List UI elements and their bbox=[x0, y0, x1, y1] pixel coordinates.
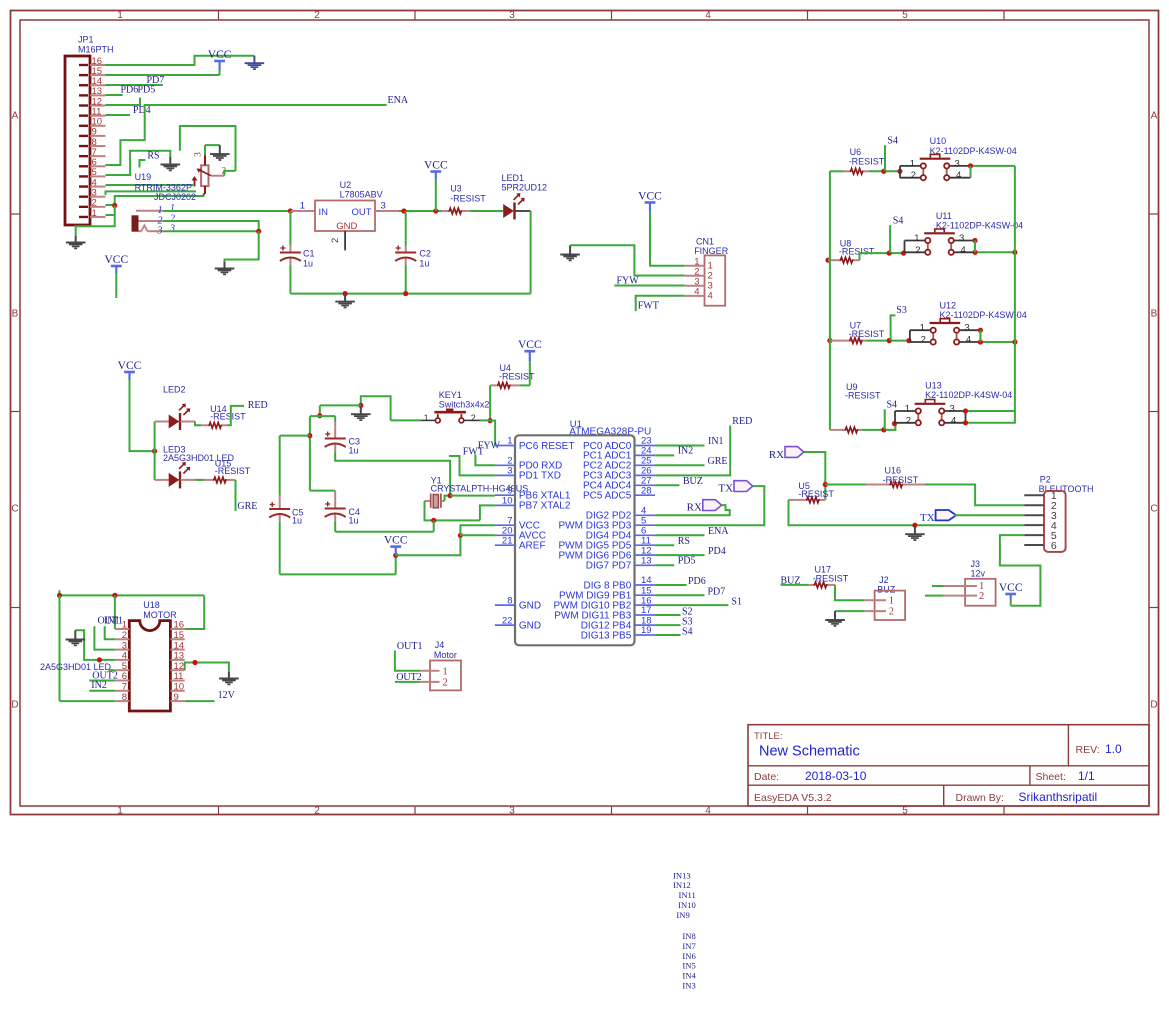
svg-text:12V: 12V bbox=[218, 690, 236, 701]
svg-text:PD5: PD5 bbox=[678, 556, 696, 567]
svg-text:1.0: 1.0 bbox=[1105, 742, 1122, 756]
svg-text:5: 5 bbox=[902, 806, 908, 817]
svg-text:IN9: IN9 bbox=[676, 910, 689, 920]
svg-text:2: 2 bbox=[889, 607, 894, 618]
svg-text:PD6: PD6 bbox=[121, 84, 139, 95]
svg-text:4: 4 bbox=[951, 415, 956, 426]
svg-text:S1: S1 bbox=[731, 597, 742, 608]
svg-text:3: 3 bbox=[509, 806, 515, 817]
svg-text:ENA: ENA bbox=[388, 95, 409, 106]
svg-text:PD7: PD7 bbox=[708, 587, 726, 598]
svg-text:PC5 ADC5: PC5 ADC5 bbox=[583, 491, 632, 502]
svg-text:Switch3x4x2: Switch3x4x2 bbox=[439, 400, 490, 410]
svg-text:4: 4 bbox=[705, 806, 711, 817]
svg-text:3: 3 bbox=[955, 158, 960, 169]
svg-text:3: 3 bbox=[157, 226, 163, 237]
svg-text:Sheet:: Sheet: bbox=[1036, 771, 1066, 783]
svg-text:IN1: IN1 bbox=[104, 616, 120, 627]
svg-text:S4: S4 bbox=[887, 399, 898, 410]
svg-text:J4: J4 bbox=[435, 640, 445, 650]
svg-text:RED: RED bbox=[732, 416, 752, 427]
svg-text:-RESIST: -RESIST bbox=[845, 390, 881, 400]
svg-text:RX: RX bbox=[687, 502, 702, 514]
svg-text:S3: S3 bbox=[896, 305, 907, 316]
svg-text:-RESIST: -RESIST bbox=[813, 574, 849, 584]
svg-text:M16PTH: M16PTH bbox=[78, 45, 114, 55]
svg-text:IN2: IN2 bbox=[678, 446, 694, 457]
svg-text:28: 28 bbox=[641, 485, 652, 496]
svg-text:RX: RX bbox=[769, 449, 784, 461]
svg-text:1: 1 bbox=[117, 806, 123, 817]
svg-text:-RESIST: -RESIST bbox=[210, 412, 246, 422]
svg-text:A: A bbox=[1151, 111, 1158, 122]
svg-text:DIG7 PD7: DIG7 PD7 bbox=[586, 561, 632, 572]
svg-text:VCC: VCC bbox=[384, 534, 408, 546]
svg-text:1u: 1u bbox=[349, 515, 359, 525]
svg-text:4: 4 bbox=[708, 290, 713, 301]
svg-text:JP1: JP1 bbox=[78, 35, 94, 45]
svg-text:GRE: GRE bbox=[237, 501, 257, 512]
svg-text:K2-1102DP-K4SW-04: K2-1102DP-K4SW-04 bbox=[936, 221, 1023, 231]
svg-text:-RESIST: -RESIST bbox=[849, 157, 885, 167]
svg-text:5: 5 bbox=[902, 10, 908, 21]
svg-text:J3: J3 bbox=[971, 559, 981, 569]
svg-text:RS: RS bbox=[147, 150, 159, 161]
svg-text:U19: U19 bbox=[135, 172, 152, 182]
svg-text:2: 2 bbox=[471, 413, 476, 423]
svg-text:1: 1 bbox=[424, 413, 429, 423]
svg-text:Drawn By:: Drawn By: bbox=[956, 792, 1004, 804]
svg-text:IN8: IN8 bbox=[682, 931, 695, 941]
svg-text:RED: RED bbox=[248, 400, 268, 411]
svg-text:4: 4 bbox=[956, 170, 961, 181]
svg-text:IN1: IN1 bbox=[708, 436, 724, 447]
svg-text:D: D bbox=[11, 700, 18, 711]
svg-text:S4: S4 bbox=[682, 627, 693, 638]
svg-text:IN2: IN2 bbox=[91, 680, 107, 691]
svg-text:8: 8 bbox=[122, 692, 127, 703]
svg-text:PD4: PD4 bbox=[708, 546, 726, 557]
svg-text:PD4: PD4 bbox=[133, 105, 151, 116]
svg-text:4: 4 bbox=[705, 10, 711, 21]
svg-text:2: 2 bbox=[911, 170, 916, 181]
svg-text:FINGER: FINGER bbox=[694, 246, 729, 256]
svg-text:EasyEDA V5.3.2: EasyEDA V5.3.2 bbox=[754, 792, 832, 804]
svg-text:U13: U13 bbox=[925, 380, 942, 390]
svg-text:3: 3 bbox=[381, 201, 386, 212]
svg-text:2: 2 bbox=[979, 591, 984, 602]
svg-text:PC6 RESET: PC6 RESET bbox=[519, 441, 575, 452]
svg-text:TX: TX bbox=[920, 512, 935, 524]
svg-text:New Schematic: New Schematic bbox=[759, 744, 860, 760]
svg-text:Srikanthsripatil: Srikanthsripatil bbox=[1019, 790, 1098, 804]
svg-text:1: 1 bbox=[300, 201, 305, 212]
svg-text:1: 1 bbox=[905, 404, 910, 415]
svg-text:TX: TX bbox=[718, 483, 733, 495]
svg-text:2: 2 bbox=[314, 10, 320, 21]
svg-text:BUZ: BUZ bbox=[877, 585, 896, 595]
svg-text:U3: U3 bbox=[450, 184, 462, 194]
svg-text:2: 2 bbox=[330, 238, 341, 243]
svg-text:1: 1 bbox=[507, 436, 512, 447]
svg-text:GRE: GRE bbox=[708, 456, 728, 467]
svg-text:MOTOR: MOTOR bbox=[143, 610, 177, 620]
svg-text:-RESIST: -RESIST bbox=[849, 329, 885, 339]
svg-text:K2-1102DP-K4SW-04: K2-1102DP-K4SW-04 bbox=[925, 390, 1012, 400]
svg-text:IN11: IN11 bbox=[678, 890, 695, 900]
svg-text:PD6: PD6 bbox=[688, 576, 706, 587]
svg-text:ENA: ENA bbox=[708, 526, 729, 537]
svg-text:IN5: IN5 bbox=[682, 961, 695, 971]
svg-text:B: B bbox=[12, 309, 19, 320]
svg-text:3: 3 bbox=[169, 224, 175, 235]
svg-text:VCC: VCC bbox=[118, 360, 142, 372]
svg-text:12v: 12v bbox=[971, 569, 986, 579]
svg-text:RS: RS bbox=[678, 536, 690, 547]
svg-text:2: 2 bbox=[915, 245, 920, 256]
svg-text:U18: U18 bbox=[143, 600, 160, 610]
svg-text:1u: 1u bbox=[419, 259, 429, 269]
svg-text:9: 9 bbox=[174, 692, 179, 703]
svg-text:U10: U10 bbox=[930, 136, 947, 146]
svg-text:IN10: IN10 bbox=[678, 900, 696, 910]
svg-text:AREF: AREF bbox=[519, 541, 546, 552]
svg-text:IN: IN bbox=[319, 207, 329, 218]
svg-text:GND: GND bbox=[519, 600, 541, 611]
svg-text:A: A bbox=[12, 111, 19, 122]
svg-text:2: 2 bbox=[314, 806, 320, 817]
svg-text:1u: 1u bbox=[292, 515, 302, 525]
svg-text:-RESIST: -RESIST bbox=[215, 466, 251, 476]
svg-text:IN3: IN3 bbox=[682, 981, 695, 991]
svg-text:C: C bbox=[11, 504, 18, 515]
svg-text:L7805ABV: L7805ABV bbox=[340, 189, 383, 199]
svg-text:21: 21 bbox=[502, 535, 513, 546]
svg-text:LED1: LED1 bbox=[502, 173, 525, 183]
svg-text:D: D bbox=[1150, 700, 1157, 711]
svg-text:K2-1102DP-K4SW-04: K2-1102DP-K4SW-04 bbox=[940, 310, 1027, 320]
svg-text:4: 4 bbox=[966, 335, 971, 346]
svg-text:S4: S4 bbox=[887, 136, 898, 147]
svg-text:JDCJ0202: JDCJ0202 bbox=[154, 192, 196, 202]
svg-text:C2: C2 bbox=[419, 249, 431, 259]
svg-text:TITLE:: TITLE: bbox=[754, 731, 783, 742]
svg-text:GND: GND bbox=[519, 620, 541, 631]
svg-text:OUT1: OUT1 bbox=[397, 641, 423, 652]
svg-text:VCC: VCC bbox=[518, 339, 542, 351]
svg-text:2: 2 bbox=[443, 678, 448, 689]
svg-text:6: 6 bbox=[1051, 540, 1057, 552]
svg-text:3: 3 bbox=[959, 233, 964, 244]
svg-text:FWT: FWT bbox=[463, 446, 484, 457]
svg-text:3: 3 bbox=[194, 152, 204, 157]
svg-text:S4: S4 bbox=[893, 215, 904, 226]
svg-text:P2: P2 bbox=[1040, 475, 1051, 485]
svg-text:1/1: 1/1 bbox=[1078, 769, 1095, 783]
svg-text:CRYSTALPTH-HG49US: CRYSTALPTH-HG49US bbox=[431, 484, 529, 494]
svg-text:U12: U12 bbox=[940, 300, 957, 310]
svg-text:OUT: OUT bbox=[351, 207, 371, 218]
svg-text:-RESIST: -RESIST bbox=[499, 372, 535, 382]
svg-text:VCC: VCC bbox=[104, 254, 128, 266]
svg-text:22: 22 bbox=[502, 615, 513, 626]
svg-text:PD5: PD5 bbox=[138, 84, 156, 95]
svg-text:REV:: REV: bbox=[1076, 744, 1100, 756]
svg-text:VCC: VCC bbox=[999, 582, 1023, 594]
svg-text:GND: GND bbox=[336, 221, 357, 232]
svg-text:-RESIST: -RESIST bbox=[450, 194, 486, 204]
svg-text:J2: J2 bbox=[879, 575, 889, 585]
svg-text:-RESIST: -RESIST bbox=[839, 247, 875, 257]
svg-text:PB7 XTAL2: PB7 XTAL2 bbox=[519, 501, 571, 512]
svg-text:C: C bbox=[1150, 504, 1157, 515]
svg-text:CN1: CN1 bbox=[696, 236, 714, 246]
svg-text:Motor: Motor bbox=[434, 650, 457, 660]
svg-text:8: 8 bbox=[507, 595, 512, 606]
svg-text:VCC: VCC bbox=[424, 159, 448, 171]
svg-text:2: 2 bbox=[906, 415, 911, 426]
svg-text:4: 4 bbox=[961, 245, 966, 256]
svg-text:1: 1 bbox=[914, 233, 919, 244]
svg-text:K2-1102DP-K4SW-04: K2-1102DP-K4SW-04 bbox=[930, 146, 1017, 156]
svg-text:1: 1 bbox=[910, 158, 915, 169]
svg-text:BUZ: BUZ bbox=[683, 476, 703, 487]
svg-text:1: 1 bbox=[443, 666, 448, 677]
svg-text:4: 4 bbox=[694, 287, 699, 298]
svg-text:U11: U11 bbox=[936, 211, 952, 221]
svg-text:3: 3 bbox=[950, 404, 955, 415]
svg-text:VCC: VCC bbox=[208, 49, 232, 61]
svg-text:1u: 1u bbox=[349, 446, 359, 456]
svg-text:B: B bbox=[1151, 309, 1158, 320]
svg-text:1u: 1u bbox=[303, 259, 313, 269]
svg-text:1: 1 bbox=[117, 10, 123, 21]
svg-text:10: 10 bbox=[502, 496, 513, 507]
svg-text:19: 19 bbox=[641, 625, 652, 636]
svg-text:3: 3 bbox=[507, 466, 512, 477]
svg-text:IN6: IN6 bbox=[682, 951, 696, 961]
svg-text:Date:: Date: bbox=[754, 771, 779, 783]
svg-text:-RESIST: -RESIST bbox=[883, 475, 919, 485]
svg-text:DIG13 PB5: DIG13 PB5 bbox=[581, 630, 632, 641]
svg-text:VCC: VCC bbox=[638, 190, 662, 202]
svg-text:C1: C1 bbox=[303, 249, 315, 259]
svg-text:2018-03-10: 2018-03-10 bbox=[805, 769, 867, 783]
svg-text:IN4: IN4 bbox=[682, 971, 696, 981]
svg-text:2: 2 bbox=[921, 335, 926, 346]
svg-text:3: 3 bbox=[509, 10, 515, 21]
svg-text:IN7: IN7 bbox=[682, 941, 696, 951]
svg-text:FWT: FWT bbox=[638, 300, 659, 311]
svg-text:1: 1 bbox=[889, 596, 894, 607]
svg-text:LED2: LED2 bbox=[163, 384, 186, 394]
svg-text:U6: U6 bbox=[850, 147, 862, 157]
svg-text:FYW: FYW bbox=[617, 275, 640, 286]
svg-text:PD1 TXD: PD1 TXD bbox=[519, 471, 561, 482]
svg-text:IN13: IN13 bbox=[673, 870, 691, 880]
svg-text:5PR2UD12: 5PR2UD12 bbox=[502, 183, 548, 193]
svg-text:13: 13 bbox=[641, 556, 652, 567]
svg-text:1: 1 bbox=[92, 208, 97, 219]
svg-text:IN12: IN12 bbox=[673, 880, 691, 890]
svg-text:3: 3 bbox=[964, 323, 969, 334]
svg-text:1: 1 bbox=[920, 323, 925, 334]
